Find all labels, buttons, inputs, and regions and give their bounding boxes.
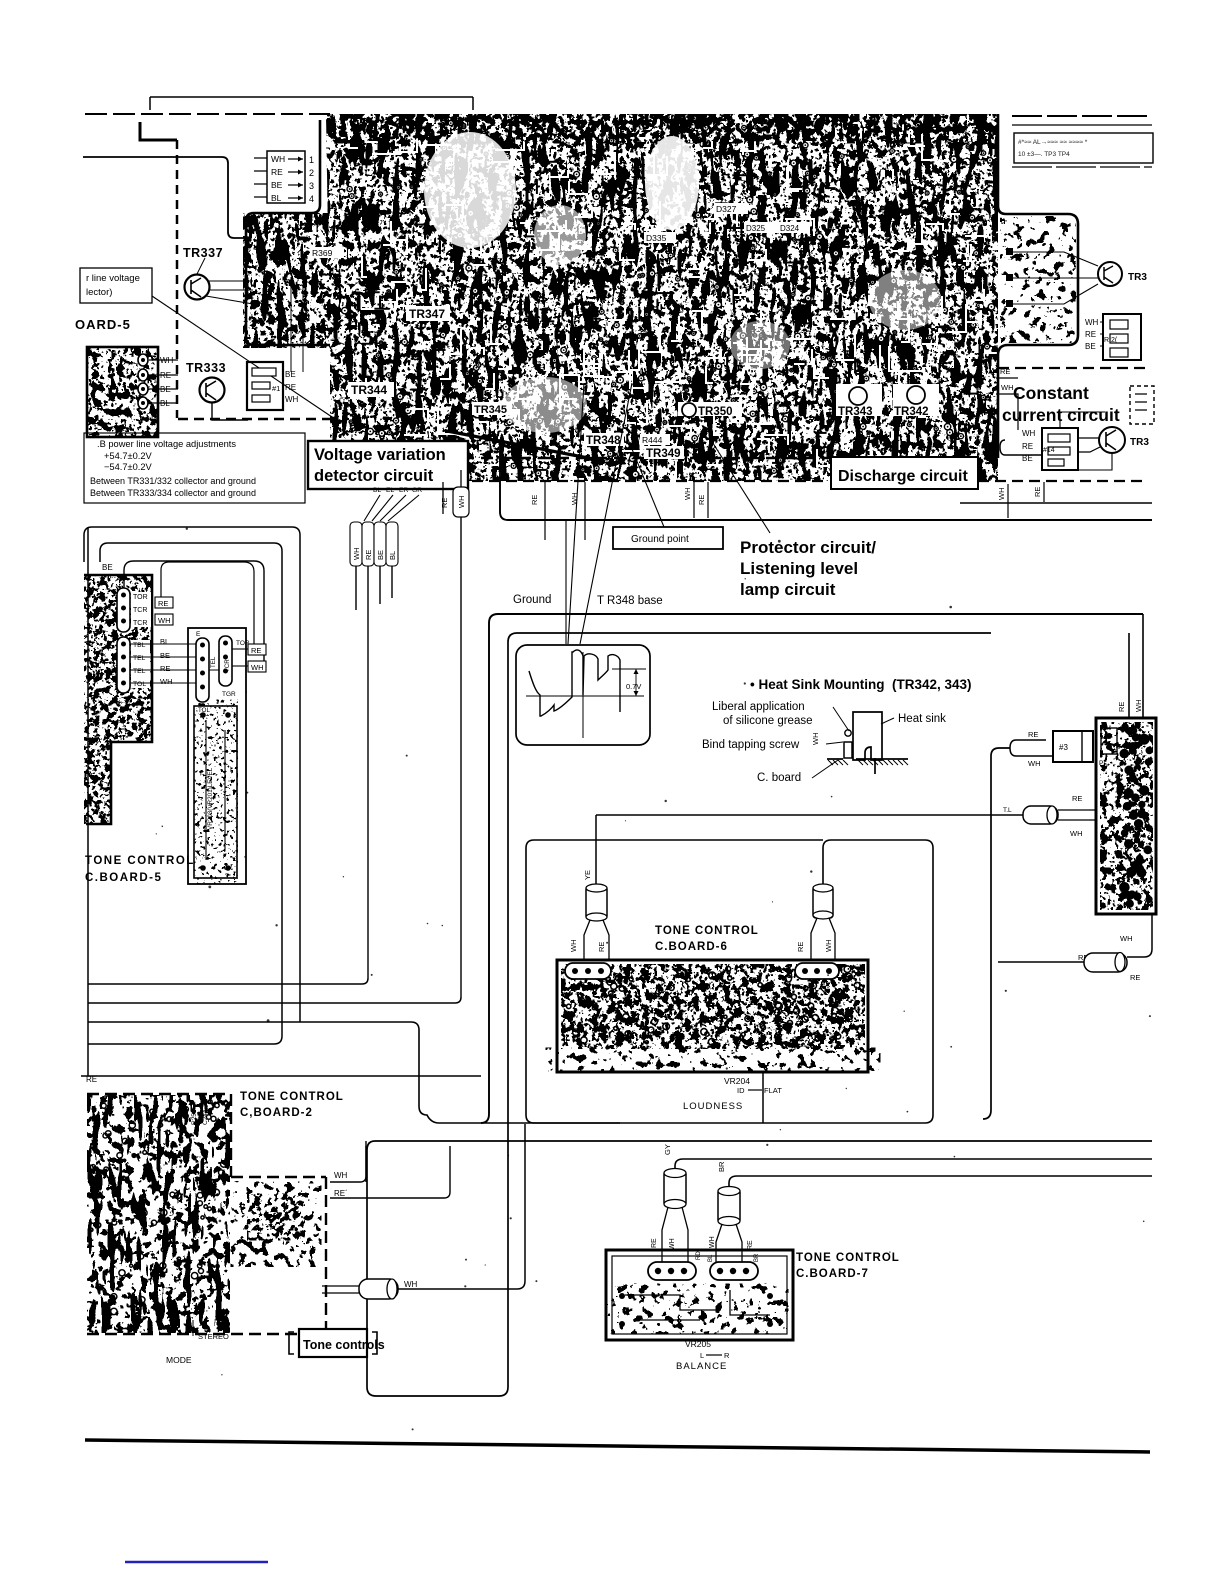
BR cylinder — [718, 1188, 740, 1224]
svg-text:E: E — [196, 631, 201, 638]
svg-text:BE: BE — [376, 550, 385, 560]
svg-text:D324: D324 — [780, 224, 800, 233]
TR337 leads — [206, 281, 253, 304]
svg-text:C. board: C. board — [757, 772, 801, 784]
top-right double rules and smudged note box — [1012, 115, 1152, 117]
svg-text:TEL: TEL — [133, 668, 146, 675]
svg-text:Ground point: Ground point — [631, 534, 689, 545]
svg-text:WH: WH — [997, 488, 1006, 501]
svg-text:BL: BL — [160, 637, 169, 646]
svg-text:TOR: TOR — [133, 594, 148, 601]
svg-text:#*≈≈ AL→≈≈≈ ≈≈ ≈≈≈≈ *: #*≈≈ AL→≈≈≈ ≈≈ ≈≈≈≈ * — [1018, 139, 1088, 146]
transistor TR344 label — [348, 382, 394, 397]
svg-text:EL: EL — [386, 487, 395, 494]
svg-text:C.BOARD-7: C.BOARD-7 — [796, 1268, 869, 1280]
svg-text:WH: WH — [1022, 429, 1036, 438]
top border wire — [85, 113, 330, 115]
svg-text:YE: YE — [583, 870, 592, 880]
svg-text:GY: GY — [663, 1144, 672, 1155]
wire y633 — [367, 633, 1152, 1396]
svg-text:RE: RE — [86, 1075, 97, 1084]
svg-text:Heat sink: Heat sink — [898, 713, 946, 725]
big rounded wire corner y613 — [481, 614, 1143, 1123]
svg-text:RE: RE — [1022, 442, 1033, 451]
svg-text:WH: WH — [285, 395, 299, 404]
diode D327 label — [714, 203, 748, 214]
top page rule — [150, 96, 473, 98]
resistor R369 label — [310, 247, 344, 258]
pointers — [833, 707, 849, 731]
svg-text:lector): lector) — [86, 287, 112, 298]
y503/y520 done; wire to right board connectors — [1128, 633, 1130, 718]
svg-text:ID: ID — [737, 1086, 745, 1095]
svg-text:WH: WH — [334, 1171, 348, 1180]
BE arc big — [124, 561, 264, 662]
svg-text:OARD-5: OARD-5 — [75, 317, 131, 332]
adjustments text box — [84, 433, 305, 503]
vertical from y1141 line down — [365, 1141, 367, 1182]
transistor TR336 (right, lower) — [1099, 427, 1125, 453]
svg-text:TR3: TR3 — [1128, 272, 1147, 283]
svg-text:R444: R444 — [642, 435, 663, 445]
svg-text:.B power line voltage adjustme: .B power line voltage adjustments — [97, 439, 236, 449]
bottom rules of top-right block — [960, 502, 1152, 504]
svg-text:TGR: TGR — [222, 691, 236, 698]
texture: left-middle board-5 block — [80, 570, 160, 830]
svg-text:TR348: TR348 — [586, 435, 621, 447]
Discharge circuit box — [831, 457, 978, 489]
svg-text:Tone controls: Tone controls — [303, 1338, 385, 1352]
svg-text:BE: BE — [160, 651, 170, 660]
board-7 — [606, 1250, 793, 1340]
svg-text:RE: RE — [285, 383, 296, 392]
board-7 traces — [625, 1290, 770, 1320]
transistor TR348 label — [584, 433, 624, 446]
connector #1 box — [247, 362, 283, 410]
svg-text:0.7V: 0.7V — [626, 682, 641, 691]
svg-text:L: L — [700, 1351, 704, 1360]
waveform box — [516, 645, 650, 745]
svg-text:C,BOARD-2: C,BOARD-2 — [240, 1107, 313, 1119]
svg-text:TEL: TEL — [133, 655, 146, 662]
svg-text:WH: WH — [352, 548, 361, 561]
svg-text:RE: RE — [1033, 487, 1042, 497]
svg-text:RE: RE — [251, 646, 261, 655]
svg-text:of silicone grease: of silicone grease — [723, 715, 813, 727]
svg-text:R369: R369 — [312, 248, 333, 258]
transistor TR343 — [836, 384, 882, 416]
waveform trace — [529, 650, 620, 716]
svg-text:RE: RE — [747, 1240, 754, 1250]
svg-text:TONE CONTROL: TONE CONTROL — [240, 1091, 344, 1103]
svg-text:Protector circuit/: Protector circuit/ — [740, 538, 876, 557]
svg-text:TR337: TR337 — [183, 246, 223, 260]
svg-text:RE: RE — [271, 167, 283, 177]
thick boundary of top texture left — [246, 120, 330, 345]
transistor TR349 label — [644, 446, 684, 459]
YE wire + cylinder left — [595, 815, 597, 886]
board-2 dashed border — [87, 1093, 231, 1095]
svg-text:2: 2 — [309, 168, 314, 178]
transistor TR342 — [893, 384, 939, 416]
board-5 outline — [84, 575, 152, 824]
svg-text:GR: GR — [412, 487, 422, 494]
rotated sleeve labels WH RE BE BL — [350, 522, 362, 566]
left long verticals and sweeps — [88, 978, 368, 984]
svg-text:BE: BE — [1085, 342, 1096, 351]
svg-text:R: R — [724, 1351, 730, 1360]
svg-text:TCR: TCR — [133, 620, 147, 627]
svg-text:RE: RE — [1028, 730, 1038, 739]
wire from #3 down long vertical — [983, 748, 1010, 1119]
svg-text:TBL: TBL — [133, 642, 146, 649]
svg-text:Constant: Constant — [1013, 383, 1089, 403]
heat sink drawing — [853, 712, 882, 760]
texture: board-6 — [556, 958, 871, 1053]
svg-text:WH: WH — [683, 488, 692, 501]
svg-text:BL: BL — [388, 551, 397, 560]
inner VR board — [194, 706, 237, 878]
svg-text:RE: RE — [1085, 330, 1096, 339]
Voltage variation detector circuit box — [308, 441, 468, 489]
svg-text:TR342: TR342 — [894, 406, 929, 418]
svg-text:Between TR331/332 collector an: Between TR331/332 collector and ground — [90, 476, 256, 486]
svg-text:WH: WH — [158, 616, 171, 625]
svg-text:Ground: Ground — [513, 594, 551, 606]
svg-text:RE: RE — [1117, 702, 1126, 712]
its connector pins — [138, 354, 148, 366]
svg-text:VR205: VR205 — [685, 1339, 711, 1349]
group-2 connector frame — [188, 628, 246, 884]
thick step wire top-left — [140, 122, 177, 140]
svg-text:BR: BR — [717, 1161, 726, 1172]
#3 connector — [1053, 731, 1093, 762]
svg-text:1: 1 — [309, 155, 314, 165]
texture: board-7 — [616, 1286, 780, 1331]
svg-text:TONE CONTROL: TONE CONTROL — [796, 1252, 900, 1264]
Ground point box — [613, 527, 723, 549]
PCB texture: right bulge (sparse) — [1000, 216, 1076, 343]
texture: board-2 bottom-left — [80, 1090, 238, 1340]
svg-text:TR345: TR345 — [474, 404, 507, 416]
svg-text:RE: RE — [697, 495, 706, 505]
svg-text:lamp circuit: lamp circuit — [740, 580, 836, 599]
svg-text:D325: D325 — [746, 224, 766, 233]
svg-text:10 ±3—. TP3 TP4: 10 ±3—. TP3 TP4 — [1018, 151, 1070, 158]
svg-text:WH: WH — [271, 154, 285, 164]
transistor TR350 — [678, 402, 742, 416]
WH wire + cylinder right — [813, 886, 833, 918]
small dashed connector right of label — [1130, 386, 1154, 424]
svg-text:BR: BR — [754, 1253, 760, 1262]
svg-text:RE: RE — [160, 664, 170, 673]
svg-text:WH: WH — [1028, 759, 1041, 768]
stub from board-6 bottom — [762, 1072, 764, 1123]
cylinder connector WH — [322, 1286, 359, 1293]
svg-text:TOL: TOL — [133, 681, 146, 688]
svg-text:#3: #3 — [1059, 743, 1068, 752]
svg-text:WH: WH — [824, 940, 833, 953]
svg-text:WH: WH — [811, 733, 820, 746]
connector column 2 — [117, 637, 130, 693]
svg-text:VR203(VR201)LEVEL: VR203(VR201)LEVEL — [207, 767, 214, 830]
svg-text:BE: BE — [285, 370, 296, 379]
wire y157 with corner — [83, 157, 246, 238]
svg-text:BL: BL — [271, 193, 282, 203]
svg-text:WH: WH — [457, 496, 466, 509]
svg-text:RE: RE — [796, 942, 805, 952]
svg-text:RE: RE — [530, 495, 539, 505]
pointer lines into waveform box — [568, 383, 584, 644]
svg-text:3: 3 — [309, 181, 314, 191]
svg-text:T.L: T.L — [1003, 807, 1012, 814]
transistor TR335 (right, upper) — [1098, 262, 1122, 286]
svg-text:detector circuit: detector circuit — [314, 467, 434, 485]
left vertical border of mid column — [87, 527, 89, 1076]
svg-text:VR204: VR204 — [724, 1076, 750, 1086]
dashed border left vertical — [176, 140, 179, 418]
svg-text:Voltage variation: Voltage variation — [314, 446, 446, 464]
svg-text:Listening level: Listening level — [740, 559, 858, 578]
svg-text:WH: WH — [709, 1236, 716, 1248]
svg-text:TCR: TCR — [224, 659, 231, 672]
svg-text:Discharge circuit: Discharge circuit — [838, 468, 969, 485]
svg-text:WH: WH — [251, 663, 264, 672]
connectors on board-6 — [565, 963, 611, 979]
svg-text:BE: BE — [271, 180, 283, 190]
svg-text:C244: C244 — [202, 1109, 209, 1125]
svg-text:WH: WH — [1085, 318, 1099, 327]
svg-text:−54.7±0.2V: −54.7±0.2V — [104, 462, 153, 472]
connector RI20 — [1103, 314, 1141, 360]
svg-text:PL: PL — [1099, 760, 1107, 767]
svg-text:WH: WH — [569, 940, 578, 953]
svg-text:Bind tapping screw: Bind tapping screw — [702, 739, 800, 751]
svg-text:• Heat Sink Mounting (TR342,: • Heat Sink Mounting (TR342, 343) — [750, 677, 972, 692]
svg-text:C.BOARD-5: C.BOARD-5 — [85, 872, 162, 884]
thick texture bottom edge diagonal — [447, 431, 604, 461]
svg-text:BL: BL — [373, 487, 382, 494]
svg-text:RD: RD — [696, 1251, 702, 1260]
svg-text:WH: WH — [160, 677, 173, 686]
transistor TR347 label — [406, 306, 450, 321]
svg-text:WH: WH — [1134, 700, 1143, 713]
thin risers from #1 area into PCB — [290, 277, 292, 372]
svg-text:+54.7±0.2V: +54.7±0.2V — [104, 451, 153, 461]
svg-text:RE: RE — [1072, 794, 1082, 803]
svg-text:TONE CONTROL: TONE CONTROL — [85, 855, 195, 867]
svg-text:BALANCE: BALANCE — [676, 1361, 727, 1372]
svg-text:BE: BE — [102, 563, 113, 572]
pointer diagonal to connector — [152, 296, 332, 417]
svg-text:RE: RE — [1000, 367, 1010, 376]
svg-text:TR350: TR350 — [698, 406, 733, 418]
svg-text:RE´: RE´ — [334, 1189, 348, 1198]
svg-text:WH: WH — [404, 1280, 418, 1289]
svg-text:RE: RE — [651, 1238, 658, 1248]
long drop wires from sleeves — [355, 566, 357, 610]
svg-text:WH: WH — [669, 1238, 676, 1250]
svg-text:#14: #14 — [1043, 447, 1055, 454]
svg-text:TCR: TCR — [133, 607, 147, 614]
C.BOARD-5 top-left small board border — [87, 347, 158, 437]
wires into arrow box — [254, 158, 267, 197]
bottom-right cylinder — [998, 961, 1084, 963]
svg-text:RI2(: RI2( — [1104, 337, 1118, 344]
connector arrows box WH RE BE BL — [267, 151, 305, 203]
svg-text:4: 4 — [309, 194, 314, 204]
svg-text:D335: D335 — [646, 233, 667, 243]
svg-text:TR333: TR333 — [186, 361, 226, 375]
svg-text:RE: RE — [1130, 973, 1140, 982]
PCB texture: top main board — [240, 110, 1002, 485]
texture: right-edge board — [1095, 716, 1160, 916]
svg-text:#1: #1 — [272, 384, 280, 393]
svg-text:TR3: TR3 — [1130, 437, 1149, 448]
svg-text:TR344: TR344 — [351, 383, 387, 397]
dashed bottom border of top section — [178, 418, 332, 420]
resistor R444 label — [640, 434, 670, 445]
svg-text:Liberal application: Liberal application — [712, 701, 805, 713]
svg-text:RE: RE — [158, 599, 168, 608]
svg-text:WH: WH — [1120, 934, 1133, 943]
svg-text:TR347: TR347 — [409, 307, 445, 321]
svg-text:T R348 base: T R348 base — [597, 595, 663, 607]
svg-text:D327: D327 — [716, 204, 737, 214]
texture: connector column board-5 inner — [196, 708, 236, 876]
diodes D325 D324 labels — [744, 222, 810, 233]
svg-text:WH: WH — [1070, 829, 1083, 838]
mid cylinder to right board — [596, 814, 1023, 816]
svg-text:ER: ER — [399, 487, 409, 494]
diode D335 label — [644, 232, 676, 243]
svg-text:BL: BL — [708, 1254, 714, 1262]
thick boundary right with bulge — [998, 114, 1078, 458]
svg-text:TR343: TR343 — [838, 406, 873, 418]
svg-text:r line voltage: r line voltage — [86, 273, 140, 284]
svg-text:R250: R250 — [191, 1109, 198, 1125]
svg-text:TR349: TR349 — [646, 448, 681, 460]
texture: C.BOARD-5 small block top-left — [80, 340, 165, 444]
GY cylinder — [664, 1170, 686, 1207]
svg-text:TONE CONTROL: TONE CONTROL — [655, 925, 759, 937]
callout box: line voltage selector — [80, 268, 152, 303]
svg-text:RE: RE — [364, 550, 373, 560]
transistor TR345 label — [472, 402, 512, 415]
svg-text:RE: RE — [597, 942, 606, 952]
leads from bulge to TR335 — [1010, 252, 1098, 266]
right-edge board — [1096, 718, 1156, 914]
svg-text:current circuit: current circuit — [1002, 405, 1120, 425]
board-6 frame — [557, 960, 868, 1072]
svg-text:MODE: MODE — [166, 1355, 192, 1365]
connector column 1 — [117, 588, 130, 632]
connector #14 — [1042, 428, 1078, 470]
svg-text:WH: WH — [1001, 383, 1014, 392]
svg-text:FLAT: FLAT — [764, 1086, 782, 1095]
svg-text:LOUDNESS: LOUDNESS — [683, 1101, 743, 1112]
svg-text:STEREO: STEREO — [198, 1332, 229, 1341]
svg-text:Between TR333/334 collector an: Between TR333/334 collector and ground — [90, 488, 256, 498]
(top edge = wire drawn in sweep path above) — [526, 840, 823, 1123]
svg-text:RE: RE — [440, 498, 449, 508]
svg-text:TEL: TEL — [210, 656, 217, 668]
svg-text:C.BOARD-6: C.BOARD-6 — [655, 941, 728, 953]
